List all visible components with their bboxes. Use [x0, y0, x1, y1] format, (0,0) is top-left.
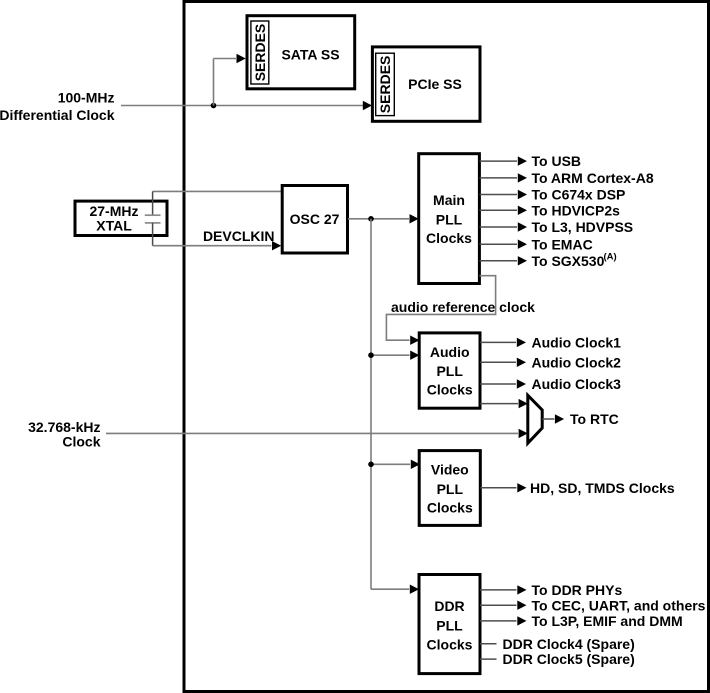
crystal plate bottom: [145, 222, 161, 224]
arrow into Video PLL: [411, 460, 420, 469]
svg-text:100-MHz: 100-MHz: [58, 89, 115, 105]
svg-text:Audio Clock3: Audio Clock3: [532, 376, 622, 392]
mux RTC clock selector: [528, 395, 542, 443]
wire To CEC, UART, and others: [480, 604, 517, 606]
svg-text:SATA SS: SATA SS: [281, 47, 339, 63]
crystal plate top: [145, 214, 161, 216]
svg-text:Audio: Audio: [430, 344, 470, 360]
wire To DDR PHYs: [480, 589, 517, 591]
wire mux output: [542, 418, 554, 420]
wire audio reference clock: [386, 276, 495, 341]
arrow To L3P, EMIF and DMM: [517, 616, 526, 625]
svg-text:(A): (A): [604, 252, 617, 263]
svg-text:To RTC: To RTC: [570, 411, 619, 427]
svg-text:Clock: Clock: [62, 433, 100, 449]
wire Audio Clock1: [480, 341, 516, 343]
SATA SS box: [247, 16, 355, 89]
node junction on 100-MHz line: [211, 103, 217, 109]
arrow To HDVICP2s: [518, 206, 527, 215]
outer device boundary box: [184, 2, 709, 692]
wire HD, SD, TMDS Clocks: [480, 487, 516, 489]
svg-text:DEVCLKIN: DEVCLKIN: [203, 228, 275, 244]
wire crystal top pin vertical: [152, 191, 154, 215]
arrow into DDR PLL: [410, 585, 419, 594]
wire OSC 27 output to Main PLL: [348, 218, 409, 220]
svg-text:SERDES: SERDES: [377, 56, 393, 114]
svg-text:To EMAC: To EMAC: [532, 236, 593, 252]
wire Audio Clock3: [480, 383, 516, 385]
svg-text:Clocks: Clocks: [427, 382, 473, 398]
arrow into Audio PLL second input: [410, 351, 419, 360]
svg-text:To C674x DSP: To C674x DSP: [532, 187, 626, 203]
svg-text:PLL: PLL: [436, 212, 463, 228]
svg-text:XTAL: XTAL: [96, 217, 132, 233]
svg-text:To SGX530: To SGX530: [532, 253, 605, 269]
wire To EMAC: [480, 243, 518, 245]
wire 100-MHz differential clock line: [121, 105, 363, 107]
OSC 27 box: [282, 186, 347, 254]
wire To SGX530: [480, 260, 518, 262]
arrow To CEC, UART, and others: [517, 601, 526, 610]
wire clock trunk vertical: [370, 219, 372, 589]
Main PLL Clocks box: [419, 154, 480, 284]
wire To HDVICP2s: [480, 209, 518, 211]
arrow into Main PLL: [410, 214, 419, 223]
wire To C674x DSP: [480, 194, 518, 196]
arrow into SATA SS: [237, 54, 246, 63]
Video PLL Clocks box: [419, 451, 480, 526]
arrow To USB: [518, 156, 527, 165]
arrow 32.768-kHz into RTC mux bottom input: [519, 429, 528, 438]
wire Audio Clock2: [480, 361, 516, 363]
svg-text:To L3P, EMIF and DMM: To L3P, EMIF and DMM: [532, 613, 683, 629]
svg-text:To USB: To USB: [532, 153, 582, 169]
arrow into RTC mux top input: [519, 399, 528, 408]
wire To ARM Cortex-A8: [480, 177, 518, 179]
svg-text:Differential Clock: Differential Clock: [0, 107, 115, 123]
wire To L3P, EMIF and DMM: [480, 620, 517, 622]
wire Audio PLL fourth output to RTC mux: [480, 403, 518, 405]
svg-text:audio reference clock: audio reference clock: [391, 299, 535, 315]
svg-text:Clocks: Clocks: [427, 637, 473, 653]
svg-text:Clocks: Clocks: [426, 230, 472, 246]
svg-text:DDR: DDR: [434, 598, 464, 614]
wire DDR Clock4 (Spare): [480, 643, 497, 645]
arrow DEVCLKIN into OSC 27: [272, 241, 281, 250]
svg-text:To L3, HDVPSS: To L3, HDVPSS: [532, 219, 634, 235]
wire vertical up from junction: [213, 59, 215, 106]
arrow Audio Clock1: [517, 338, 526, 347]
svg-text:Audio Clock1: Audio Clock1: [532, 335, 622, 351]
svg-text:PLL: PLL: [436, 618, 463, 634]
svg-text:To CEC, UART, and others: To CEC, UART, and others: [532, 597, 706, 613]
svg-text:HD, SD, TMDS Clocks: HD, SD, TMDS Clocks: [530, 480, 675, 496]
svg-text:DDR Clock4 (Spare): DDR Clock4 (Spare): [503, 636, 635, 652]
wire crystal bottom pin vertical: [152, 223, 154, 246]
node junction video branch: [368, 462, 374, 468]
SERDES box (PCIe): [376, 53, 395, 115]
svg-text:Main: Main: [433, 192, 465, 208]
svg-text:To ARM Cortex-A8: To ARM Cortex-A8: [532, 170, 654, 186]
svg-text:PLL: PLL: [436, 363, 463, 379]
node junction OSC output: [368, 216, 374, 222]
svg-text:To HDVICP2s: To HDVICP2s: [532, 202, 621, 218]
arrow HD, SD, TMDS Clocks: [517, 483, 526, 492]
PCIe SS box: [372, 47, 480, 121]
DDR PLL Clocks box: [419, 575, 480, 674]
arrow To RTC: [555, 414, 564, 423]
arrow Audio Clock3: [517, 379, 526, 388]
svg-text:Audio Clock2: Audio Clock2: [532, 354, 622, 370]
svg-text:SERDES: SERDES: [252, 24, 268, 82]
wire crystal bottom lead / DEVCLKIN: [153, 245, 272, 247]
SERDES box (SATA): [251, 21, 269, 84]
wire To USB: [480, 160, 518, 162]
svg-text:Clocks: Clocks: [427, 499, 473, 515]
Audio PLL Clocks box: [419, 333, 480, 408]
arrow into PCIe SS: [363, 101, 372, 110]
arrow To L3, HDVPSS: [518, 222, 527, 231]
wire trunk branch to DDR PLL: [371, 588, 409, 590]
svg-text:OSC 27: OSC 27: [290, 211, 340, 227]
node junction audio branch: [368, 352, 374, 358]
svg-text:PCIe SS: PCIe SS: [408, 76, 462, 92]
arrow To ARM Cortex-A8: [518, 173, 527, 182]
wire 32.768-kHz clock: [106, 432, 518, 434]
arrow Audio Clock2: [517, 358, 526, 367]
arrow audio reference clock into Audio PLL: [410, 336, 419, 345]
wire crystal top lead: [153, 190, 282, 192]
svg-text:Video: Video: [431, 462, 469, 478]
svg-text:PLL: PLL: [437, 481, 464, 497]
arrow To EMAC: [518, 240, 527, 249]
wire trunk branch to Audio PLL: [371, 354, 410, 356]
arrow To DDR PHYs: [517, 585, 526, 594]
wire To L3, HDVPSS: [480, 226, 518, 228]
arrow To C674x DSP: [518, 190, 527, 199]
wire trunk branch to Video PLL: [371, 463, 410, 465]
27-MHz XTAL box: [75, 201, 167, 235]
wire DDR Clock5 (Spare): [480, 658, 497, 660]
svg-text:DDR Clock5 (Spare): DDR Clock5 (Spare): [503, 651, 635, 667]
arrow To SGX530: [518, 256, 527, 265]
svg-text:To DDR PHYs: To DDR PHYs: [532, 582, 623, 598]
wire to SATA SS: [214, 58, 237, 60]
